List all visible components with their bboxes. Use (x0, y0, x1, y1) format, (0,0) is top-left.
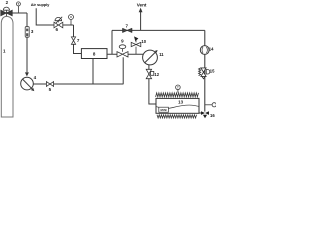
svg-text:12: 12 (154, 72, 159, 77)
svg-text:1: 1 (3, 49, 6, 54)
svg-text:11: 11 (159, 52, 164, 57)
svg-text:3: 3 (31, 29, 34, 34)
svg-text:13: 13 (178, 100, 183, 105)
svg-text:Vent: Vent (137, 3, 147, 8)
svg-text:9: 9 (121, 39, 124, 44)
svg-text:5: 5 (49, 87, 52, 92)
svg-text:7: 7 (126, 23, 129, 28)
svg-text:4: 4 (34, 75, 37, 80)
svg-text:10: 10 (141, 39, 146, 44)
svg-text:6: 6 (56, 27, 59, 32)
svg-text:14: 14 (209, 46, 214, 51)
svg-text:2: 2 (6, 0, 9, 5)
svg-text:7: 7 (77, 38, 80, 43)
svg-text:15: 15 (210, 68, 215, 73)
svg-text:16: 16 (210, 113, 215, 118)
svg-text:MVB: MVB (160, 108, 166, 112)
svg-text:Air supply: Air supply (31, 2, 50, 7)
